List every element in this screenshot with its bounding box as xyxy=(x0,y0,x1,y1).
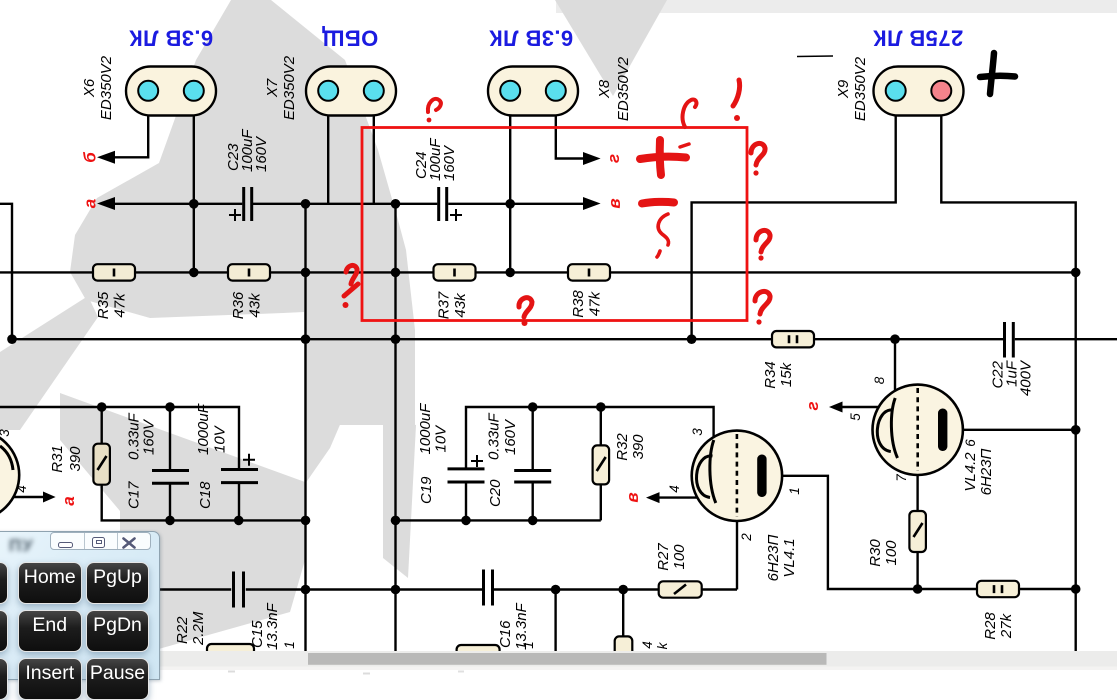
svg-text:R28: R28 xyxy=(982,612,999,640)
red dot H xyxy=(756,319,761,324)
svg-text:160V: 160V xyxy=(502,418,519,455)
pin numbers VL4.1 xyxy=(667,428,802,542)
svg-text:R31: R31 xyxy=(49,445,66,473)
label C23 xyxy=(225,129,270,172)
resistor R30 xyxy=(909,511,926,552)
svg-text:3: 3 xyxy=(690,428,705,436)
red annotation curl D top xyxy=(683,100,697,127)
red annotation question mark B left xyxy=(344,265,358,296)
svg-text:C18: C18 xyxy=(197,481,214,509)
svg-text:390: 390 xyxy=(67,446,84,472)
resistor R22 partial xyxy=(207,644,254,656)
svg-text:VL4.1: VL4.1 xyxy=(781,538,798,577)
red dot F xyxy=(753,170,758,175)
label R32 xyxy=(614,433,647,461)
svg-text:R35: R35 xyxy=(95,291,112,319)
red annotation plus tick xyxy=(680,144,689,147)
wire R30 legs xyxy=(916,466,918,589)
svg-text:4: 4 xyxy=(14,485,29,493)
svg-text:400V: 400V xyxy=(1018,359,1035,396)
label R28 xyxy=(982,612,1015,640)
svg-text:10V: 10V xyxy=(212,424,229,453)
svg-text:R34: R34 xyxy=(762,361,779,389)
scrollbar track xyxy=(0,651,1117,667)
partial bottom labels xyxy=(282,641,670,649)
svg-text:R38: R38 xyxy=(570,290,587,318)
resistor R35 xyxy=(93,264,135,280)
wire R32 legs xyxy=(600,407,602,520)
svg-text:160V: 160V xyxy=(441,144,458,181)
svg-text:100: 100 xyxy=(671,544,688,570)
label C20 xyxy=(486,412,520,507)
scrollbar thumb xyxy=(308,653,827,665)
svg-text:0.33uF: 0.33uF xyxy=(486,412,503,460)
wire X7 pin2 down xyxy=(373,114,375,204)
arrow VL3.2 pin4 right xyxy=(43,492,56,503)
svg-text:6.3В ЛК: 6.3В ЛК xyxy=(129,26,213,51)
node vertical v1 x305 xyxy=(304,204,306,651)
svg-text:X6: X6 xyxy=(81,78,98,98)
resistor R27 xyxy=(659,581,702,597)
red annotation plus sign xyxy=(640,140,686,175)
red node letters xyxy=(59,152,822,506)
connector X9 xyxy=(874,67,964,116)
label C18 xyxy=(195,403,229,509)
resistor R36 xyxy=(228,264,270,280)
svg-text:ED350V2: ED350V2 xyxy=(852,56,869,121)
label C19 xyxy=(417,403,450,504)
svg-text:a: a xyxy=(59,496,78,505)
keyboard keys xyxy=(0,562,8,604)
svg-text:ED350V2: ED350V2 xyxy=(615,56,632,121)
svg-text:100: 100 xyxy=(883,540,900,566)
red dot E xyxy=(734,115,740,121)
label R27 xyxy=(655,543,688,571)
svg-text:ED350V2: ED350V2 xyxy=(281,55,298,120)
label X6 xyxy=(81,55,115,120)
wire VL3.2 heater pin4 xyxy=(8,496,44,498)
red annotation question mark G right xyxy=(756,230,770,252)
resistor R37 xyxy=(434,264,476,280)
svg-text:г: г xyxy=(803,401,822,410)
red annotation question mark C xyxy=(519,298,532,317)
svg-text:C19: C19 xyxy=(418,476,435,504)
svg-text:2.2M: 2.2M xyxy=(190,611,207,646)
wire X9 pin1 to lower bus xyxy=(692,114,896,339)
red annotation minus sign xyxy=(642,202,674,204)
wire C17 legs xyxy=(169,407,171,520)
svg-text:C20: C20 xyxy=(487,479,504,507)
wire a-bus horizontal xyxy=(113,203,584,205)
wire VL4.2 heater pin5 xyxy=(841,406,883,408)
svg-text:390: 390 xyxy=(630,434,647,460)
node vertical v2 x395 xyxy=(394,204,396,651)
svg-text:1000uF: 1000uF xyxy=(417,403,434,455)
wire C19 bottom leg xyxy=(465,482,467,521)
plus C18 xyxy=(243,454,255,466)
wire VL4.1 anode route xyxy=(766,476,1075,589)
below scrollbar strip xyxy=(0,667,1117,678)
svg-text:43k: 43k xyxy=(247,292,264,318)
svg-text:ED350V2: ED350V2 xyxy=(98,55,115,120)
triode VL4.1 xyxy=(692,431,782,521)
resistor under C16 partial xyxy=(457,645,500,655)
wire X8 pin1 down xyxy=(509,114,511,272)
svg-text:7: 7 xyxy=(894,474,909,482)
wire VL4.2 cathode pin8 xyxy=(894,339,896,400)
connector X7 xyxy=(306,67,396,116)
svg-text:X9: X9 xyxy=(835,79,852,99)
label C24 xyxy=(413,138,458,181)
svg-text:X8: X8 xyxy=(596,79,613,99)
svg-text:6: 6 xyxy=(963,439,978,447)
svg-text:б: б xyxy=(81,152,100,163)
wire R31 top xyxy=(100,407,102,444)
arrow pin4 left xyxy=(646,492,660,503)
arrow a left xyxy=(97,197,115,210)
resistor R31 xyxy=(93,444,110,485)
svg-text:X7: X7 xyxy=(264,78,281,98)
label X8 xyxy=(596,56,632,121)
plus C24 xyxy=(450,209,462,221)
svg-text:15k: 15k xyxy=(778,361,795,387)
label R35 xyxy=(95,291,129,319)
label X9 xyxy=(835,56,869,121)
svg-text:4: 4 xyxy=(640,641,655,649)
svg-text:1: 1 xyxy=(787,487,802,495)
wire VL4.1 grid pin2 xyxy=(736,521,738,590)
svg-text:г: г xyxy=(604,154,623,163)
svg-text:C16: C16 xyxy=(497,620,514,648)
capacitor C24 xyxy=(439,187,447,221)
plus C23 xyxy=(229,209,241,221)
red annotation question mark F right xyxy=(751,143,765,165)
svg-text:R37: R37 xyxy=(436,291,453,319)
capacitor C16 xyxy=(484,570,493,606)
svg-text:4: 4 xyxy=(667,485,682,493)
label R36 xyxy=(230,291,264,319)
label R31 xyxy=(49,445,84,473)
svg-text:R27: R27 xyxy=(655,543,672,571)
svg-text:ОБЩ: ОБЩ xyxy=(322,26,379,51)
wire R31 bottom xyxy=(102,485,306,521)
capacitor C15 xyxy=(234,572,244,608)
wire X6 pin2 down xyxy=(193,114,195,272)
label VL4.1 xyxy=(765,535,798,582)
svg-text:5: 5 xyxy=(848,413,863,421)
svg-text:10V: 10V xyxy=(433,424,450,453)
wire C19 rail bottom xyxy=(396,519,601,521)
svg-text:6Н23П: 6Н23П xyxy=(765,535,782,582)
pin numbers VL3.2 xyxy=(0,429,29,493)
red annotation question mark A above C24 xyxy=(428,99,441,112)
svg-text:13.3nF: 13.3nF xyxy=(264,602,281,650)
capacitor C20 xyxy=(514,471,551,483)
black pen line xyxy=(797,55,833,58)
resistor R29 partial xyxy=(615,636,633,656)
arrow pin5 left xyxy=(829,402,843,413)
svg-text:6Н23П: 6Н23П xyxy=(978,449,995,496)
svg-text:в: в xyxy=(605,198,624,208)
svg-text:1: 1 xyxy=(521,641,536,649)
svg-text:8: 8 xyxy=(872,376,887,384)
wire VL4.2 anode pin6 xyxy=(948,429,1076,431)
label C22 xyxy=(990,359,1035,396)
arrow v right xyxy=(583,197,601,210)
wire X9 pin2 right rail xyxy=(941,114,1075,651)
keyboard window xyxy=(0,531,160,680)
svg-text:47k: 47k xyxy=(587,290,604,316)
red dot C xyxy=(522,320,528,326)
red annotation mirrored question mark I xyxy=(657,214,669,257)
wire R29 leg xyxy=(622,590,624,638)
label X7 xyxy=(264,55,298,120)
svg-text:1000uF: 1000uF xyxy=(195,403,212,455)
connector X8 xyxy=(488,67,578,116)
svg-text:k: k xyxy=(655,641,670,649)
red dot A xyxy=(427,118,432,123)
wire resistor row xyxy=(0,271,1076,273)
capacitor C17 xyxy=(152,471,189,484)
label C15 xyxy=(249,602,281,650)
red annotation rectangle xyxy=(362,128,747,321)
plus C19 xyxy=(471,455,483,467)
resistor R28 xyxy=(977,581,1019,597)
black pen cross xyxy=(980,53,1015,94)
svg-text:6.3В ЛК: 6.3В ЛК xyxy=(489,26,573,51)
svg-text:27k: 27k xyxy=(998,612,1015,639)
red dot G xyxy=(758,255,763,260)
svg-text:R36: R36 xyxy=(230,291,247,319)
label VL4.2 xyxy=(962,449,995,496)
svg-text:275В ЛК: 275В ЛК xyxy=(873,26,964,51)
labels blue connector names xyxy=(129,26,963,51)
label R34 xyxy=(762,361,795,389)
keyboard blurred label xyxy=(9,536,43,562)
capacitor C18 xyxy=(221,470,258,483)
label R37 xyxy=(436,291,470,319)
wire g from X8 pin2 xyxy=(556,114,584,159)
svg-text:1: 1 xyxy=(282,641,297,649)
arrow b left xyxy=(97,151,115,164)
label R22 xyxy=(174,611,207,646)
svg-text:VL4.2: VL4.2 xyxy=(962,452,979,492)
red annotation question mark H right xyxy=(755,291,770,314)
wire C15 row xyxy=(158,588,738,590)
triode VL4.2 xyxy=(873,385,963,475)
label C17 xyxy=(126,412,158,509)
left stub wire xyxy=(0,204,12,339)
svg-text:R30: R30 xyxy=(867,539,884,567)
wire C18 bottom leg xyxy=(238,483,240,521)
svg-text:160V: 160V xyxy=(253,135,270,172)
label C16 xyxy=(497,602,530,650)
wire VL4.1 heater pin4 xyxy=(658,496,698,498)
connector X6 xyxy=(126,67,216,116)
red dot B xyxy=(343,302,349,308)
wire C19 rail top xyxy=(466,407,714,469)
wire C20 legs xyxy=(532,407,534,520)
capacitor C23 xyxy=(244,187,252,221)
wire C17 rail top xyxy=(0,407,239,469)
svg-text:2: 2 xyxy=(739,533,754,542)
svg-text:a: a xyxy=(81,199,100,208)
pin numbers VL4.2 xyxy=(848,376,978,482)
resistor R32 xyxy=(593,445,610,484)
resistor R34 xyxy=(772,331,814,347)
svg-text:3: 3 xyxy=(0,429,12,437)
svg-text:160V: 160V xyxy=(141,418,158,455)
label R30 xyxy=(867,539,900,567)
red annotation exclamation E xyxy=(733,80,740,106)
resistor R38 xyxy=(568,264,610,280)
arrow g right xyxy=(583,152,601,165)
svg-text:43k: 43k xyxy=(452,292,469,318)
wire v555 down xyxy=(554,590,556,652)
svg-text:R32: R32 xyxy=(614,433,631,461)
svg-text:R22: R22 xyxy=(174,616,191,644)
triode VL3.2 partial xyxy=(0,430,19,520)
svg-text:C17: C17 xyxy=(126,481,143,509)
wire lower bus xyxy=(12,338,1117,340)
label R38 xyxy=(570,290,604,318)
wire X7 pin1 down xyxy=(327,114,329,204)
wire b from X6 pin1 xyxy=(113,114,148,157)
keyboard titlebar buttons xyxy=(50,532,151,550)
svg-text:в: в xyxy=(623,492,642,502)
svg-text:47k: 47k xyxy=(112,292,129,318)
capacitor C19 xyxy=(448,469,485,482)
capacitor C22 xyxy=(1005,322,1014,358)
